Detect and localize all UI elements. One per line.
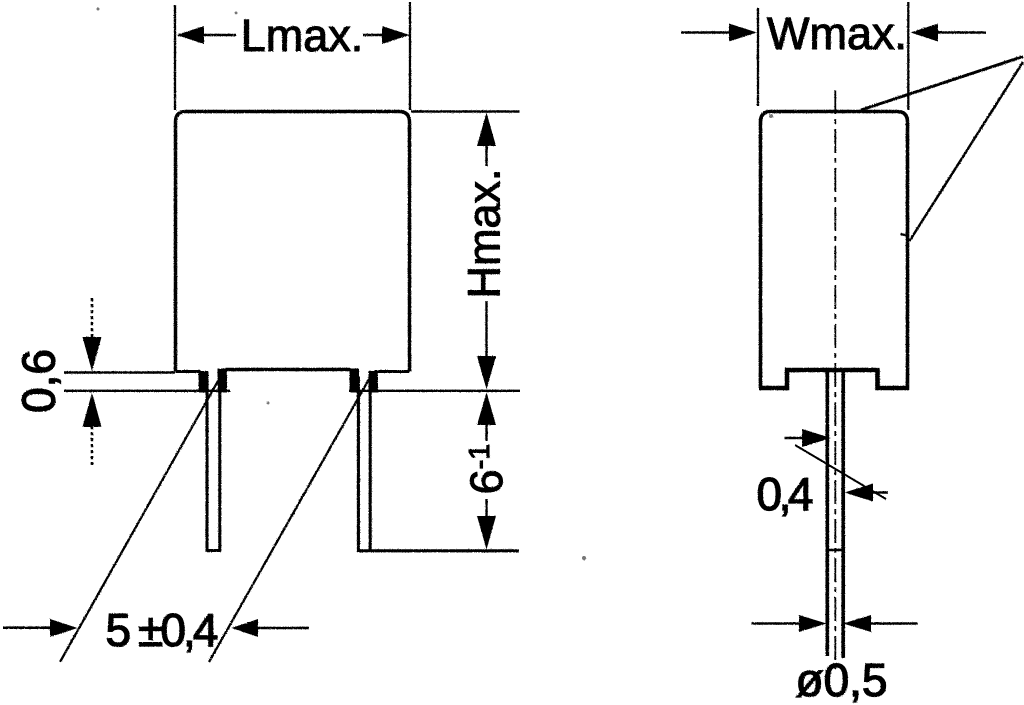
capacitor body side view (759, 112, 909, 389)
lead end line (357, 549, 519, 552)
Wmax dimension (681, 8, 986, 59)
diameter 0,5 lead dimension (752, 615, 918, 705)
lead 1 (front view left) (206, 377, 222, 551)
0,4 lead thickness dimension (757, 429, 889, 520)
leader line B (side surface callout) (910, 62, 1024, 241)
svg-text:Wmax.: Wmax. (767, 8, 907, 59)
svg-text:Lmax.: Lmax. (241, 10, 364, 61)
standoff step extension line (64, 371, 175, 373)
Wmax extension line left (757, 8, 759, 106)
Lmax dimension (177, 10, 410, 61)
seating plane line (64, 390, 520, 392)
lead (side view) (826, 372, 846, 658)
svg-text:0,6: 0,6 (13, 349, 65, 413)
5 +/-0,4 pitch dimension (3, 604, 309, 656)
oblique extension line 1 (60, 377, 221, 663)
Wmax extension line right (907, 2, 909, 110)
scan speckles (97, 8, 774, 561)
mounting foot left (around lead 1) (199, 369, 228, 393)
0,6 standoff dimension (13, 298, 102, 465)
svg-text:Hmax.: Hmax. (459, 168, 510, 298)
lead 2 (front view right) (358, 377, 370, 551)
mounting foot right (around lead 2) (350, 369, 379, 393)
Hmax dimension (459, 113, 510, 390)
capacitor body front view (176, 112, 410, 372)
Hmax extension line (top) (411, 110, 520, 112)
6-1 lead length dimension (461, 392, 512, 549)
svg-text:ø0,5: ø0,5 (795, 654, 887, 705)
leader line A (top surface callout) (861, 57, 1023, 111)
oblique extension line 2 (209, 377, 371, 663)
Lmax extension line right (409, 2, 411, 110)
center line (834, 90, 836, 669)
Lmax extension line left (174, 5, 176, 110)
svg-text:5 ±0,4: 5 ±0,4 (106, 604, 219, 656)
svg-text:0,4: 0,4 (757, 468, 814, 520)
